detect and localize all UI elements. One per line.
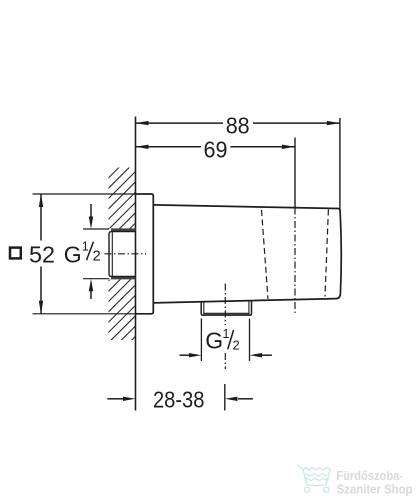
extension line right of 88: [339, 118, 341, 209]
svg-text:2: 2: [93, 249, 101, 265]
wall thread arrows: [90, 204, 92, 218]
body outline: [153, 205, 341, 303]
left texts: [10, 248, 21, 259]
svg-text:G: G: [64, 241, 82, 267]
svg-text:88: 88: [226, 112, 250, 138]
wall-side thread (G 1/2 inlet): [111, 228, 136, 231]
centerline through body at x=295: [294, 208, 296, 315]
bottom G1/2 arrows: [180, 354, 190, 356]
wall surface line (also extension line for 88/69 and 28-38): [135, 117, 137, 411]
svg-text:69: 69: [204, 137, 228, 163]
52 dimension line with arrows: [40, 194, 42, 241]
extension line of 69 (solid upper part): [294, 138, 296, 208]
52 extension lines: [33, 193, 136, 195]
wall thread centerline: [105, 253, 147, 255]
dimension 88: [136, 122, 340, 124]
svg-text:1: 1: [82, 240, 89, 254]
svg-text:Szaniter Shop: Szaniter Shop: [337, 481, 413, 496]
wall plate (escutcheon): [136, 194, 154, 314]
hidden dashed lines inside body: [262, 210, 269, 299]
extension lines for wall thread arrows: [83, 228, 109, 230]
wall hatching: [75, 136, 150, 417]
outlet (bottom G 1/2): [201, 300, 251, 315]
svg-text:1: 1: [223, 327, 230, 341]
svg-text:28-38: 28-38: [153, 386, 205, 412]
bottom G1/2 extension lines: [200, 319, 202, 362]
dimension 69: [136, 146, 296, 148]
svg-text:2: 2: [233, 338, 240, 353]
svg-text:G: G: [205, 328, 223, 354]
logo shopping cart: [298, 465, 331, 492]
28-38 dimension: [107, 398, 123, 400]
svg-text:52: 52: [29, 241, 55, 267]
outlet centerline: [224, 284, 226, 326]
